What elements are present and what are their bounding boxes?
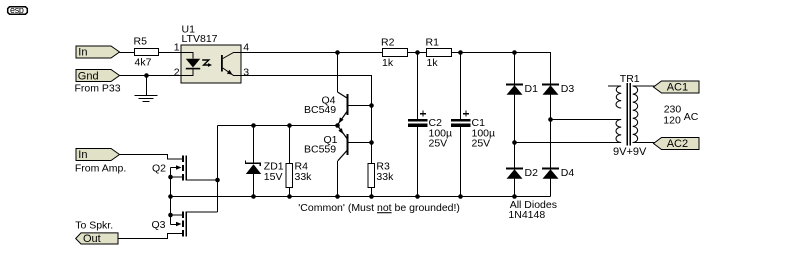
svg-text:1k: 1k: [427, 57, 439, 69]
svg-text:Gnd: Gnd: [78, 71, 99, 83]
svg-text:LTV817: LTV817: [182, 33, 218, 45]
svg-text:R1: R1: [426, 36, 440, 48]
svg-text:4k7: 4k7: [135, 56, 152, 68]
svg-text:Q2: Q2: [152, 162, 166, 174]
svg-text:4: 4: [243, 41, 249, 53]
svg-text:1k: 1k: [382, 57, 394, 69]
svg-text:D3: D3: [561, 83, 575, 95]
svg-text:From P33: From P33: [75, 82, 121, 94]
svg-text:'Common' (Must not be grounded: 'Common' (Must not be grounded!): [298, 202, 460, 214]
svg-text:Out: Out: [83, 233, 101, 245]
svg-text:AC: AC: [684, 111, 699, 123]
svg-text:120: 120: [663, 115, 681, 127]
svg-text:BC549: BC549: [304, 104, 336, 116]
svg-text:AC2: AC2: [667, 138, 688, 150]
svg-text:esp: esp: [10, 5, 24, 15]
svg-text:25V: 25V: [472, 138, 491, 150]
svg-text:25V: 25V: [429, 138, 448, 150]
svg-text:BC559: BC559: [304, 143, 336, 155]
svg-text:R5: R5: [134, 36, 148, 48]
svg-text:33k: 33k: [295, 171, 313, 183]
svg-text:3: 3: [243, 66, 249, 78]
svg-text:From Amp.: From Amp.: [75, 162, 126, 174]
svg-text:15V: 15V: [264, 171, 283, 183]
svg-text:9V+9V: 9V+9V: [613, 146, 647, 158]
svg-text:To Spkr.: To Spkr.: [75, 219, 113, 231]
svg-text:2: 2: [174, 66, 180, 78]
svg-text:TR1: TR1: [620, 73, 640, 85]
svg-text:D4: D4: [561, 167, 575, 179]
svg-text:In: In: [78, 149, 87, 161]
svg-text:D2: D2: [525, 167, 539, 179]
svg-text:In: In: [78, 47, 87, 59]
svg-text:1: 1: [174, 41, 180, 53]
svg-text:R2: R2: [381, 36, 395, 48]
svg-text:33k: 33k: [376, 171, 394, 183]
svg-text:AC1: AC1: [667, 82, 688, 94]
svg-text:230: 230: [664, 104, 682, 116]
svg-text:Q3: Q3: [152, 219, 166, 231]
svg-text:D1: D1: [525, 83, 539, 95]
svg-text:1N4148: 1N4148: [508, 209, 545, 221]
